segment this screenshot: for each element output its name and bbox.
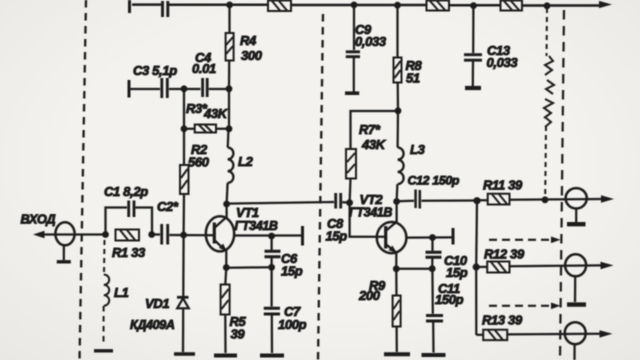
- node R3 left: [181, 125, 188, 132]
- VT2 collector lead: [386, 202, 396, 231]
- node input/C1/L1: [102, 231, 109, 238]
- VT1 emitter arrow: [219, 244, 227, 252]
- output 1 ground bar: [567, 222, 586, 226]
- svg-text:R7*: R7*: [359, 122, 381, 137]
- wire: C10 bottom lead: [431, 259, 433, 269]
- capacitor C9: [346, 52, 360, 57]
- node shield/C6: [268, 233, 275, 240]
- resistor R1: [116, 230, 140, 241]
- svg-text:560: 560: [188, 155, 210, 170]
- dashed cable line (fine dashes): [545, 8, 547, 197]
- dashed shield link 2: [489, 305, 551, 307]
- wire: distribution vertical: [475, 201, 478, 336]
- node cable/R11: [542, 196, 549, 203]
- node rail/R8: [394, 2, 401, 9]
- svg-text:0,033: 0,033: [487, 55, 519, 70]
- dashed link 1 arrow: [551, 237, 561, 244]
- wire: node to L3 top: [396, 111, 399, 148]
- svg-text:0.01: 0.01: [192, 61, 216, 76]
- wire: VD1 to ground: [182, 308, 184, 352]
- ground bar under VD1: [174, 352, 195, 356]
- svg-text:15p: 15p: [326, 229, 348, 244]
- VT1 base bar: [213, 223, 216, 244]
- resistor R2: [180, 165, 189, 194]
- svg-text:200: 200: [358, 288, 381, 303]
- svg-text:R12 39: R12 39: [484, 247, 525, 262]
- svg-text:0,033: 0,033: [355, 34, 387, 49]
- svg-text:VT1: VT1: [236, 205, 259, 220]
- wire: C10 top lead: [431, 238, 433, 251]
- wire: C6 bottom lead: [270, 258, 272, 267]
- capacitor C2*: [162, 224, 168, 245]
- wire: C12 to output node: [422, 199, 478, 202]
- VT1 emitter lead: [215, 241, 227, 268]
- svg-text:ВХОД: ВХОД: [21, 212, 56, 227]
- svg-text:ГТ341В: ГТ341В: [349, 206, 392, 220]
- resistor R12: [487, 262, 509, 273]
- wire: L2 to VT1 collector node: [227, 183, 228, 204]
- wire: node to R7 top: [351, 111, 399, 149]
- dashed wire L1 to ground: [103, 306, 105, 346]
- terminal bar top-left: [128, 0, 131, 13]
- resistor R9: [393, 296, 401, 327]
- node output distribution: [473, 197, 480, 204]
- capacitor C1: [129, 201, 134, 218]
- dashed shield line right (long dashes): [560, 10, 564, 360]
- svg-text:100p: 100p: [278, 317, 307, 332]
- dashed shield link 1: [489, 239, 551, 241]
- capacitor C3: [162, 78, 168, 98]
- wire: C3 to C4: [169, 88, 201, 90]
- node distribution/R12: [473, 263, 480, 270]
- node VT2 collector: [393, 198, 400, 205]
- svg-text:39: 39: [231, 327, 246, 342]
- wire: R9 to ground: [395, 327, 397, 353]
- wire: C13 lead from rail: [472, 6, 474, 53]
- input connector circle: [55, 222, 74, 245]
- wire: input line: [42, 233, 106, 235]
- inductor L2: [228, 148, 234, 183]
- node rail/R4: [226, 2, 233, 9]
- wire: R8 to node: [397, 83, 400, 112]
- resistor R13: [483, 330, 507, 340]
- inductor L3: [398, 148, 404, 185]
- wire: C8 to base node: [342, 201, 349, 203]
- wire: node down to VD1: [182, 235, 185, 296]
- input connector ground bar: [57, 260, 71, 263]
- svg-text:L2: L2: [238, 154, 254, 169]
- svg-text:L3: L3: [410, 142, 426, 157]
- svg-text:R4: R4: [240, 33, 257, 48]
- node rail/cable: [544, 2, 551, 9]
- diode VD1: [177, 297, 189, 308]
- resistor R3: [195, 125, 216, 133]
- svg-text:C2*: C2*: [157, 199, 179, 214]
- capacitor C6: [265, 251, 281, 256]
- wire: C2 to VT1 base: [169, 234, 213, 237]
- wire: R13 to output 3: [507, 333, 600, 336]
- svg-text:43K: 43K: [361, 137, 387, 152]
- resistor R11: [488, 194, 510, 205]
- VT2 emitter lead: [386, 245, 396, 269]
- resistor on rail (middle, unlabeled): [427, 1, 450, 11]
- node rail/C9: [351, 2, 358, 9]
- wire: C11 to ground: [432, 323, 435, 353]
- resistor R5: [221, 285, 230, 315]
- wire: C13 to chassis: [472, 62, 474, 87]
- output 2 arrow: [601, 262, 614, 270]
- terminal bar (VT2 shield): [452, 228, 455, 245]
- node C8/R7/base: [346, 199, 353, 206]
- wire: down to C11: [431, 269, 434, 314]
- output 2 ground stem: [574, 276, 576, 302]
- wire: R3 leads: [184, 128, 229, 130]
- wire: emitter to R9: [395, 269, 397, 296]
- resistor R8: [394, 58, 402, 83]
- node emitter wire/C10: [429, 265, 436, 272]
- node shield/C10: [429, 234, 436, 241]
- node C4/R4: [226, 85, 233, 92]
- VT1 collector lead: [215, 204, 227, 228]
- svg-text:43K: 43K: [203, 106, 229, 121]
- ground bar under L1: [94, 349, 113, 352]
- output connector 3 circle: [565, 322, 586, 344]
- wire: VT1 shield lead to terminal: [234, 234, 301, 236]
- VT2 emitter arrow: [389, 246, 397, 253]
- capacitor C11: [426, 316, 443, 322]
- output connector 2 circle: [565, 254, 586, 276]
- node VT1 collector: [223, 201, 230, 208]
- svg-text:R11 39: R11 39: [483, 178, 523, 193]
- wire: R5 to ground: [224, 315, 226, 354]
- resistor R4: [226, 33, 234, 61]
- chassis bar under C9: [345, 91, 359, 95]
- rail output arrow: [599, 1, 612, 8]
- output 1 arrow: [601, 195, 614, 203]
- svg-text:150p: 150p: [435, 292, 464, 307]
- wire: node to R11: [477, 199, 488, 201]
- node emitter wire/C6: [268, 264, 275, 271]
- svg-text:VD1: VD1: [145, 296, 169, 311]
- dashed wire to L1: [103, 240, 106, 274]
- resistor R7: [346, 149, 356, 179]
- ground bar under C11: [422, 353, 446, 357]
- wire: VT2 emitter to C10 node: [396, 268, 432, 270]
- capacitor C4: [203, 78, 208, 97]
- wire: C7 to ground: [271, 316, 273, 354]
- chassis bar under C13: [465, 86, 481, 90]
- wire: R12 to output 2: [510, 264, 602, 267]
- node C3/R3: [181, 85, 188, 92]
- wire: corner to R13: [476, 334, 483, 336]
- wire: rail to R4: [228, 5, 230, 33]
- node R1/C1 right: [148, 231, 155, 238]
- capacitor C13: [464, 55, 482, 61]
- dashed link 2 arrow: [551, 303, 561, 310]
- node VT1 emitter: [223, 264, 230, 271]
- node base/R2/VD1: [180, 232, 187, 239]
- wire: L2 upper lead: [227, 129, 230, 148]
- svg-text:15p: 15p: [446, 265, 468, 280]
- resistor on rail (right, unlabeled): [501, 1, 523, 11]
- wire: node to R12: [476, 266, 487, 268]
- node R3 right: [226, 125, 233, 132]
- VT2 base bar: [384, 226, 387, 249]
- svg-text:51: 51: [406, 71, 420, 86]
- dashed separator line left: [80, 0, 87, 360]
- wire: C9 lead from rail: [353, 5, 355, 50]
- ground bar under C7: [260, 354, 284, 358]
- svg-text:ГТ341В: ГТ341В: [235, 219, 278, 233]
- wire: node to C2: [152, 233, 160, 235]
- capacitor C8: [336, 193, 341, 209]
- wire: R7 bottom to base node: [348, 179, 351, 204]
- output 3 arrow: [600, 330, 613, 337]
- wire: C9 to chassis: [353, 58, 355, 92]
- wire: base node jog to VT2 base: [350, 203, 385, 237]
- svg-text:15p: 15p: [281, 264, 303, 279]
- wire: C4 to R4 node: [209, 88, 229, 90]
- node rail/C13: [470, 2, 477, 9]
- wire: R2 to base node: [182, 194, 185, 235]
- svg-text:C1 8,2p: C1 8,2p: [104, 184, 148, 199]
- cable squiggle on dashed line: [544, 56, 554, 127]
- wire: C6 top lead: [270, 236, 272, 250]
- wire: VT2 shield lead to terminal: [406, 236, 451, 238]
- input connector ground stem: [63, 245, 65, 260]
- svg-text:C12 150p: C12 150p: [408, 174, 460, 188]
- transistor VT2 circle: [377, 222, 407, 253]
- terminal bar (VT1 shield): [301, 226, 304, 246]
- wire: emitter to R5: [225, 268, 226, 285]
- wire: supply rail top: [132, 3, 600, 6]
- wire: down to C7: [270, 267, 272, 306]
- wire: node to R2: [183, 129, 185, 165]
- wire: collector node to C12: [397, 200, 414, 203]
- svg-text:R1 33: R1 33: [112, 245, 146, 260]
- svg-text:R13 39: R13 39: [482, 313, 523, 328]
- wire: R11 to output 1: [510, 198, 603, 201]
- resistor on rail (left, unlabeled): [268, 1, 291, 12]
- svg-text:C3 5,1p: C3 5,1p: [133, 63, 177, 78]
- node R8/R7/L3: [395, 107, 402, 114]
- wire: L3 bottom to VT2 collector node: [395, 184, 398, 201]
- node VT2 emitter: [393, 265, 400, 272]
- svg-text:КД409А: КД409А: [130, 318, 175, 332]
- wire: stub to C3: [130, 88, 160, 90]
- wire: R4 to C4 node: [228, 61, 230, 90]
- capacitor C10: [426, 252, 442, 257]
- output 3 ground stem: [573, 344, 575, 360]
- wire: VT1 collector to C8: [227, 202, 334, 204]
- inductor L1: [104, 275, 109, 306]
- wire: node down to R3 level: [184, 89, 229, 129]
- ground bar under R9: [384, 352, 410, 356]
- output 2 ground bar: [567, 302, 586, 306]
- wire: rail to R8: [396, 5, 398, 58]
- capacitor top-left (unlabeled): [163, 1, 168, 17]
- capacitor C12: [416, 190, 420, 209]
- transistor VT1 circle: [206, 216, 234, 251]
- input arrow: [33, 231, 45, 239]
- output connector 1 circle: [566, 188, 587, 208]
- capacitor C7: [264, 308, 280, 314]
- output 1 ground stem: [575, 209, 577, 223]
- wire: C3 stub bar: [128, 80, 131, 98]
- svg-text:L1: L1: [114, 285, 129, 300]
- ground bar under R5: [214, 354, 237, 358]
- wire: C1 branch (parallel loop): [106, 208, 153, 235]
- svg-text:300: 300: [241, 48, 263, 63]
- wire: VT1 emitter to C6 node: [226, 266, 271, 269]
- dashed separator line middle: [318, 14, 323, 360]
